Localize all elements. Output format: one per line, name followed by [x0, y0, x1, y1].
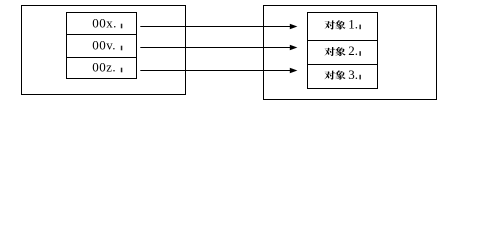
wire arrow 2 [140, 47, 290, 49]
svg-text:2.: 2. [348, 43, 358, 58]
svg-text:3.: 3. [348, 67, 358, 82]
CJK label 对象 2 [324, 47, 334, 56]
CJK label 对象 3 [324, 71, 334, 80]
right outer container box [264, 6, 437, 100]
right inner table of objects [308, 13, 378, 89]
left outer container box [22, 6, 186, 95]
CJK label 对象 1 [324, 20, 334, 29]
wire arrow 3 [140, 70, 290, 72]
svg-text:1.: 1. [348, 17, 358, 32]
wire arrow 1 [140, 26, 290, 28]
svg-text:00x.: 00x. [92, 15, 117, 30]
left inner table of variables [67, 13, 137, 79]
svg-text:00v.: 00v. [92, 37, 116, 52]
svg-text:00z.: 00z. [92, 59, 116, 74]
